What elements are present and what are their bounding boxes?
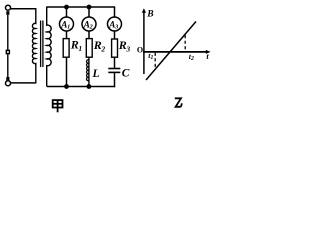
label yi (figure B) (175, 98, 182, 107)
wire top bus (46, 6, 115, 8)
wire A1 to R1 (66, 31, 68, 39)
terminal tick top (6, 11, 9, 15)
ammeter A3 (108, 17, 122, 31)
resistor R1 (63, 39, 69, 58)
wire left input lower (7, 54, 9, 77)
junction bottom bus branch 2 (87, 84, 92, 89)
ammeter A2 (82, 17, 96, 31)
dashed line t1 (154, 53, 156, 69)
wire A2 top stub (88, 7, 90, 17)
B-t line (146, 22, 196, 81)
junction bottom bus branch 1 (64, 84, 69, 89)
svg-text:O: O (137, 46, 143, 55)
transformer primary winding (32, 8, 35, 83)
graph t axis (143, 51, 208, 53)
svg-text:C: C (122, 68, 130, 80)
resistor R2 (86, 39, 92, 58)
transformer secondary winding (47, 7, 51, 87)
wire R3 to capacitor (114, 57, 116, 68)
svg-text:B: B (146, 10, 153, 20)
label jia (figure A) (53, 100, 63, 112)
resistor R3 (112, 39, 118, 57)
ammeter A1 (60, 17, 74, 31)
wire R2 to inductor and to bus (spine) (88, 57, 90, 86)
capacitor C bottom plate (108, 72, 120, 74)
capacitor C top plate (108, 68, 120, 70)
dashed line t2 (184, 35, 186, 51)
terminal tick bottom (6, 77, 9, 80)
wire A3 top drop (114, 7, 116, 17)
junction top bus branch 1 (64, 5, 69, 10)
wire capacitor to bottom bus (114, 73, 116, 87)
wire A3 to R3 (114, 31, 116, 39)
wire primary bottom to terminal (11, 82, 37, 84)
svg-text:L: L (92, 68, 100, 80)
wire A2 to R2 (88, 31, 90, 39)
transformer core (40, 21, 42, 68)
wire bottom bus (47, 86, 115, 88)
wire R1 to bottom bus (66, 57, 68, 86)
node a (square marker) (6, 50, 11, 55)
junction top bus branch 2 (87, 5, 92, 10)
wire top-left to primary (11, 8, 37, 10)
wire A1 top stub (66, 7, 68, 17)
inductor L (87, 60, 89, 81)
graph B axis (143, 10, 145, 74)
wire left input upper (7, 15, 9, 50)
terminal top-left (6, 5, 11, 10)
terminal bottom-left (6, 81, 11, 86)
